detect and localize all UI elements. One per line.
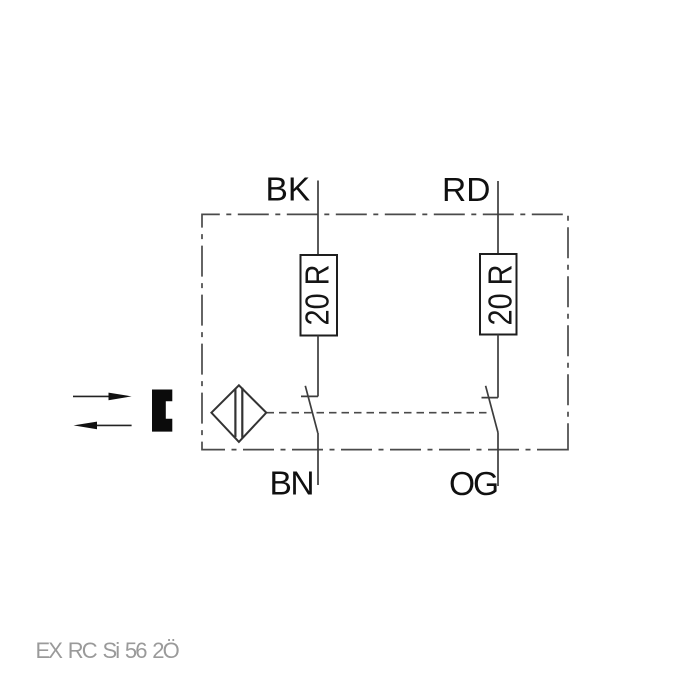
svg-text:20 R: 20 R [299, 265, 336, 326]
svg-text:RD: RD [442, 172, 490, 209]
svg-text:20 R: 20 R [481, 265, 518, 326]
svg-text:OG: OG [449, 466, 497, 503]
svg-text:EX RC Si 56 2Ö: EX RC Si 56 2Ö [36, 638, 180, 663]
svg-text:BN: BN [270, 466, 314, 503]
svg-text:BK: BK [266, 172, 311, 209]
